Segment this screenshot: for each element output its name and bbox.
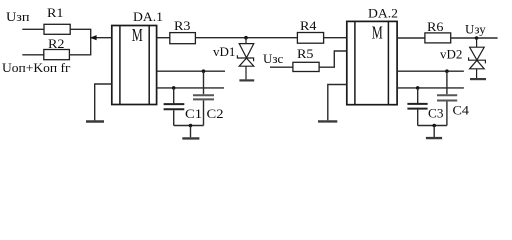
svg-text:C4: C4 (453, 103, 470, 118)
wire Uzs to R5 (270, 66, 293, 68)
ground for C3C4 (426, 137, 442, 139)
wire DA.2 aux out 2 (397, 87, 464, 89)
junction C2 (202, 69, 206, 73)
svg-text:R2: R2 (48, 36, 65, 51)
wire DA.2 output to R6 (397, 37, 425, 39)
svg-text:M: M (372, 23, 383, 43)
wire DA.2 aux out 1 (397, 70, 464, 72)
resistor R1 (44, 24, 70, 34)
wire R1 to node A (70, 29, 91, 37)
resistor R2 (44, 50, 70, 60)
svg-text:M: M (132, 25, 143, 45)
svg-text:vD1: vD1 (213, 44, 235, 59)
wire R4 to DA.2 (324, 37, 347, 39)
svg-text:C1: C1 (185, 106, 202, 121)
op-amp block DA.2 (347, 21, 397, 104)
ground for DA.1 (86, 120, 104, 122)
svg-text:DA.1: DA.1 (133, 9, 163, 24)
zener diode vD2 (469, 38, 486, 78)
junction C3 (416, 86, 420, 90)
svg-text:R4: R4 (300, 18, 317, 33)
svg-text:R1: R1 (47, 5, 64, 20)
ground for vD1 (239, 79, 254, 81)
wire node A to DA.1 input pin with arrow (91, 37, 112, 39)
junction at vD2 (475, 36, 479, 40)
resistor R6 (425, 33, 451, 43)
ground for DA.2 (318, 120, 337, 122)
wire DA.1 aux out 1 (157, 70, 225, 72)
ground for vD2 (470, 78, 486, 80)
capacitor C2 (193, 71, 214, 125)
resistor R3 (170, 33, 196, 44)
resistor R4 (297, 33, 323, 44)
capacitor C1 (164, 88, 185, 126)
svg-text:Uоп+Kоп fг: Uоп+Kоп fг (2, 60, 71, 75)
arrowhead into node A (90, 35, 97, 40)
junction C4 (445, 69, 449, 73)
wire DA.1 output to R3 (157, 37, 170, 39)
svg-text:vD2: vD2 (440, 47, 462, 62)
zener diode vD1 (237, 38, 253, 80)
wire DA.1 aux out 2 (157, 87, 224, 89)
svg-text:R5: R5 (297, 46, 314, 61)
svg-text:C3: C3 (428, 106, 444, 121)
resistor R5 (293, 62, 319, 71)
wire to ground C3C4 (433, 126, 435, 138)
op-amp block DA.1 (112, 26, 157, 105)
svg-text:DA.2: DA.2 (368, 6, 398, 21)
wire R6 to output Uzu (451, 37, 498, 39)
ground for C1C2 (182, 137, 199, 139)
junction at vD1 (244, 36, 248, 40)
junction C1C2 ground (189, 124, 193, 128)
wire C1 C2 common (174, 125, 204, 127)
junction C1 (172, 86, 176, 90)
capacitor C3 (407, 88, 427, 126)
wire C3 C4 common (418, 125, 447, 127)
capacitor C4 (437, 71, 457, 125)
wire to ground C1C2 (190, 126, 192, 138)
svg-text:R3: R3 (174, 18, 191, 33)
svg-text:Uзу: Uзу (465, 22, 486, 37)
svg-text:Uзс: Uзс (263, 51, 284, 66)
wire Uop to R2 (22, 54, 44, 56)
wire R2 to node A (69, 38, 90, 55)
svg-text:C2: C2 (207, 106, 224, 121)
wire Uzp to R1 (22, 28, 44, 30)
svg-text:Uзп: Uзп (6, 9, 30, 24)
wire DA.2 ground pin (328, 85, 347, 121)
wire R3 to R4 (195, 37, 297, 39)
junction C3C4 ground (432, 124, 436, 128)
wire R5 to DA.2 second input (319, 51, 347, 67)
svg-text:R6: R6 (427, 19, 444, 34)
wire DA.1 ground pin (95, 84, 112, 120)
